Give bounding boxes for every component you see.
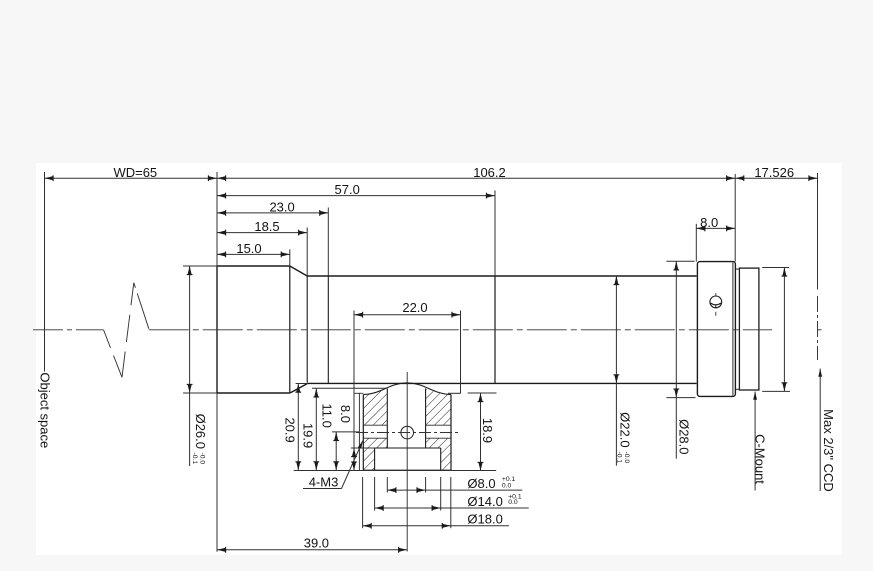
svg-text:-0.0: -0.0 [198,453,205,465]
svg-text:WD=65: WD=65 [113,165,157,180]
svg-text:Ø26.0: Ø26.0 [193,414,208,449]
svg-text:Ø14.0: Ø14.0 [467,494,502,509]
svg-text:-0.1: -0.1 [191,453,198,465]
svg-text:C-Mount: C-Mount [753,434,768,484]
svg-text:Max 2/3" CCD: Max 2/3" CCD [821,409,836,492]
svg-text:18.9: 18.9 [480,418,495,443]
svg-text:39.0: 39.0 [304,535,329,550]
svg-text:Ø8.0: Ø8.0 [467,476,495,491]
svg-text:11.0: 11.0 [319,404,334,428]
svg-text:Object space: Object space [37,372,52,448]
svg-text:19.9: 19.9 [300,423,315,448]
svg-text:23.0: 23.0 [269,199,294,214]
svg-text:22.0: 22.0 [402,300,427,315]
svg-text:Ø28.0: Ø28.0 [676,419,691,454]
svg-text:15.0: 15.0 [236,241,261,256]
svg-text:106.2: 106.2 [473,165,506,180]
svg-text:8.0: 8.0 [338,405,353,423]
svg-text:20.9: 20.9 [283,417,298,442]
svg-text:17.526: 17.526 [754,165,794,180]
svg-text:0.0: 0.0 [502,483,512,490]
svg-text:0.0: 0.0 [508,499,518,506]
svg-text:-0.1: -0.1 [616,452,623,464]
svg-text:8.0: 8.0 [700,215,718,230]
svg-text:4-M3: 4-M3 [309,475,339,490]
svg-text:18.5: 18.5 [254,219,279,234]
svg-text:-0.0: -0.0 [623,452,630,464]
svg-text:Ø22.0: Ø22.0 [618,412,633,447]
svg-text:57.0: 57.0 [335,182,360,197]
svg-text:Ø18.0: Ø18.0 [467,511,502,526]
